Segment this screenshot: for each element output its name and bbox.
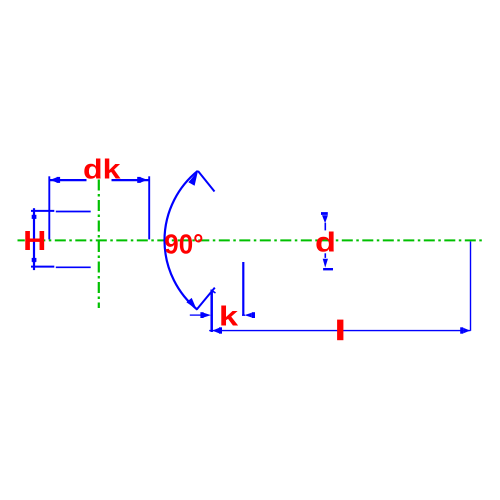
d tick bottom [323, 268, 333, 270]
H extension line bottom inner [56, 266, 91, 268]
svg-text:90°: 90° [164, 228, 203, 259]
l extension line right [470, 242, 472, 331]
svg-text:d: d [315, 227, 336, 258]
90 degree angle arc [165, 171, 198, 310]
dk dimension line left segment [49, 179, 86, 181]
k extension line left [210, 290, 213, 333]
l dimension line [209, 330, 470, 332]
H dimension line [33, 208, 35, 270]
flank tick [212, 291, 215, 293]
svg-text:H: H [23, 225, 46, 256]
dk arrow left [50, 177, 57, 182]
dk extension line right [148, 176, 150, 239]
d tick top [321, 212, 328, 215]
centerline vertical head axis [98, 180, 100, 309]
arc arrow top [188, 171, 198, 186]
dk arrow right [141, 177, 148, 182]
svg-text:k: k [219, 301, 239, 332]
arc arrow bottom [186, 298, 196, 310]
d arrow up [322, 215, 328, 223]
label l [337, 320, 343, 341]
k arrow left [204, 313, 212, 318]
cone flank line bottom [197, 288, 215, 310]
centerline horizontal axis [18, 239, 484, 241]
k arrow right [242, 314, 245, 316]
svg-text:dk: dk [83, 153, 121, 184]
k extension line right [242, 262, 244, 315]
H extension line top outer [31, 210, 54, 212]
dk dimension line right segment [112, 179, 150, 181]
H arrow down [32, 259, 36, 267]
d stem top [324, 223, 326, 231]
l arrow right [463, 328, 470, 334]
k arrow tail left [190, 314, 201, 316]
cone flank line top [198, 171, 215, 192]
d arrow down [323, 259, 328, 268]
d stem bottom [324, 253, 326, 258]
dk extension line left [48, 176, 50, 239]
l arrow left [212, 328, 219, 334]
H extension line bottom outer [31, 266, 54, 268]
H arrow up [32, 211, 36, 219]
H extension line top inner [56, 211, 91, 213]
